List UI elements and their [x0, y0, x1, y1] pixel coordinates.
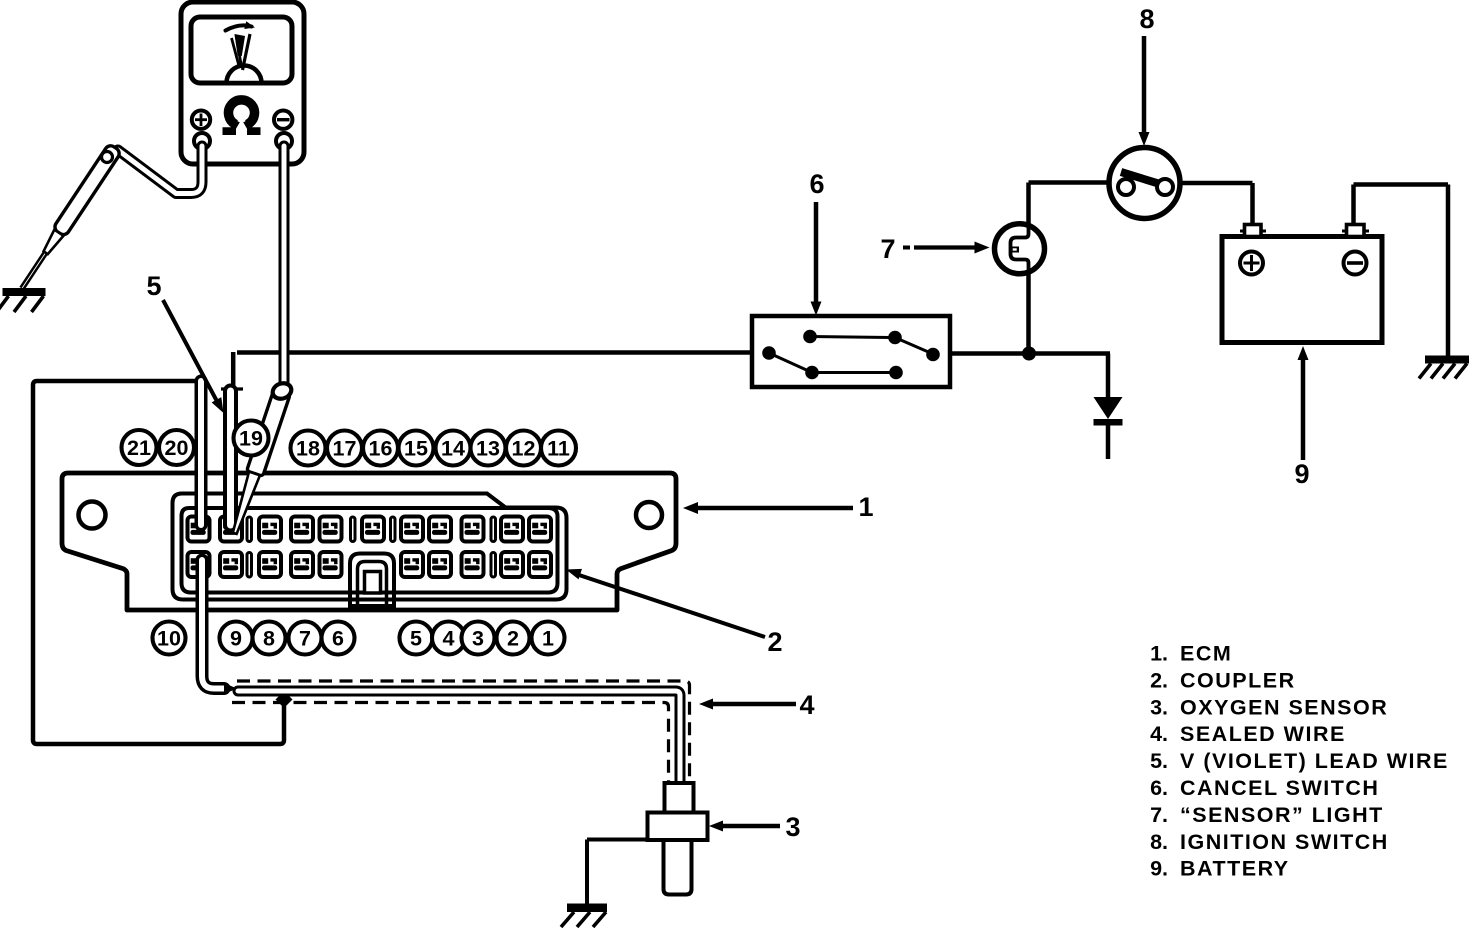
svg-text:15: 15	[404, 437, 428, 461]
svg-text:COUPLER: COUPLER	[1180, 668, 1296, 692]
svg-text:4: 4	[443, 627, 455, 651]
svg-text:8.: 8.	[1150, 830, 1168, 854]
svg-text:6.: 6.	[1150, 776, 1168, 800]
svg-text:19: 19	[239, 427, 263, 451]
svg-text:12: 12	[512, 437, 536, 461]
svg-text:8: 8	[1139, 4, 1154, 34]
svg-text:17: 17	[333, 437, 357, 461]
svg-text:2: 2	[767, 627, 782, 657]
svg-text:1.: 1.	[1150, 642, 1168, 666]
svg-text:14: 14	[441, 437, 465, 461]
svg-text:9: 9	[230, 627, 242, 651]
svg-text:ECM: ECM	[1180, 642, 1232, 666]
svg-text:7: 7	[299, 627, 311, 651]
svg-text:2.: 2.	[1150, 668, 1168, 692]
svg-text:9: 9	[1294, 459, 1309, 489]
svg-text:7: 7	[880, 234, 895, 264]
svg-text:13: 13	[476, 437, 500, 461]
svg-text:6: 6	[332, 627, 344, 651]
svg-text:3: 3	[472, 627, 484, 651]
svg-text:1: 1	[542, 627, 554, 651]
svg-text:SEALED WIRE: SEALED WIRE	[1180, 722, 1346, 746]
svg-text:20: 20	[165, 436, 189, 460]
svg-text:3: 3	[785, 812, 800, 842]
svg-text:5: 5	[146, 271, 161, 301]
svg-text:BATTERY: BATTERY	[1180, 857, 1290, 881]
svg-text:1: 1	[858, 492, 873, 522]
svg-text:18: 18	[296, 437, 320, 461]
svg-text:9.: 9.	[1150, 857, 1168, 881]
svg-text:CANCEL SWITCH: CANCEL SWITCH	[1180, 776, 1379, 800]
svg-text:2: 2	[507, 627, 519, 651]
svg-text:OXYGEN SENSOR: OXYGEN SENSOR	[1180, 695, 1388, 719]
svg-text:8: 8	[263, 627, 275, 651]
svg-text:3.: 3.	[1150, 695, 1168, 719]
svg-text:V (VIOLET) LEAD WIRE: V (VIOLET) LEAD WIRE	[1180, 749, 1449, 773]
svg-text:21: 21	[127, 436, 151, 460]
svg-text:10: 10	[157, 627, 181, 651]
svg-text:4.: 4.	[1150, 722, 1168, 746]
svg-text:5.: 5.	[1150, 749, 1168, 773]
svg-text:5: 5	[410, 627, 422, 651]
svg-text:“SENSOR” LIGHT: “SENSOR” LIGHT	[1180, 803, 1384, 827]
svg-text:11: 11	[547, 437, 570, 461]
svg-text:IGNITION SWITCH: IGNITION SWITCH	[1180, 830, 1389, 854]
svg-text:6: 6	[809, 169, 824, 199]
svg-text:7.: 7.	[1150, 803, 1168, 827]
svg-text:4: 4	[799, 690, 814, 720]
svg-text:16: 16	[369, 437, 393, 461]
